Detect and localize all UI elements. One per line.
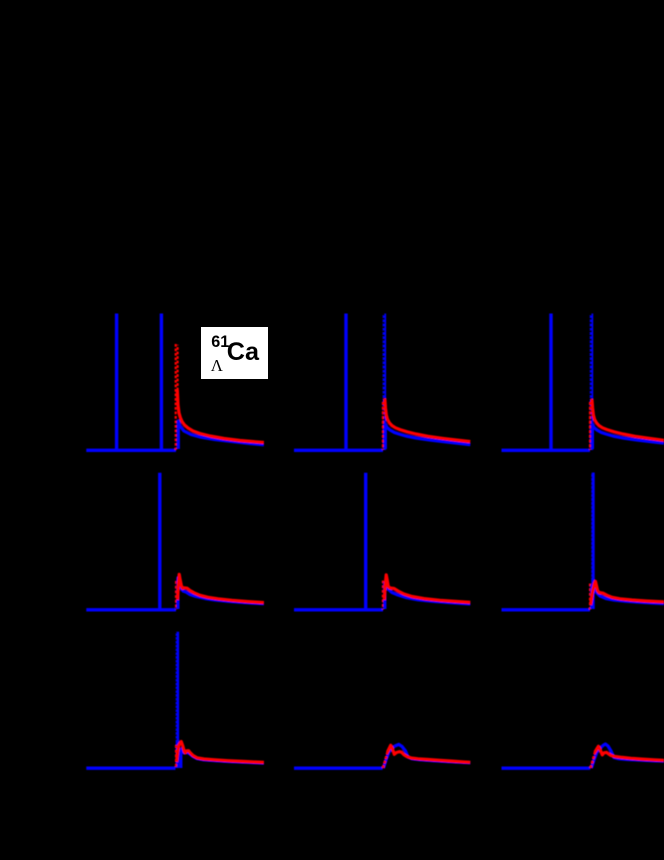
label text 61 superscript — [211, 334, 229, 350]
red dashed threshold line (3,1) — [175, 745, 177, 769]
zero line blue (2,2) — [294, 608, 383, 611]
red dashed threshold line (2,1) — [175, 581, 177, 610]
red continuum curve (3,2) — [388, 745, 471, 762]
black dashed threshold marker (1,2) — [382, 314, 385, 450]
blue continuum curve (2,1) — [178, 578, 264, 609]
blue continuum curve (3,2) — [384, 744, 471, 768]
blue continuum curve (1,3) — [592, 424, 664, 449]
zero line blue (1,1) — [86, 449, 176, 452]
zero line blue (2,1) — [86, 608, 176, 611]
red continuum curve (3,3) — [595, 746, 664, 760]
red continuum curve (3,1) — [177, 742, 264, 763]
red dashed threshold line B (1,1) — [177, 345, 179, 392]
red dashed threshold line (1,3) — [589, 402, 591, 450]
blue continuum curve (3,1) — [181, 749, 264, 769]
red continuum curve (1,2) — [385, 399, 471, 442]
threshold spike blue (1,3) — [590, 314, 593, 451]
blue continuum curve (2,3) — [592, 586, 664, 609]
bound-state spike (2,3) — [591, 473, 594, 610]
red continuum curve (1,3) — [592, 399, 664, 440]
black dashed marker on spike (3,1) — [175, 632, 177, 742]
bound-state spike 1 (1,1) — [115, 314, 118, 451]
red dashed threshold line (2,2) — [382, 581, 384, 610]
blue continuum curve (3,3) — [592, 744, 664, 768]
bound-state spike (1,3) — [549, 314, 552, 451]
bound-state spike (2,2) — [364, 473, 367, 609]
red continuum curve (1,1) — [177, 390, 264, 443]
zero line blue (2,3) — [502, 608, 591, 611]
red continuum curve (2,1) — [178, 574, 264, 602]
label text Ca — [227, 340, 259, 365]
red continuum curve (2,3) — [591, 581, 664, 605]
zero line blue (3,3) — [502, 767, 591, 770]
black dashed marker on spike (2,3) — [591, 473, 593, 579]
red dashed threshold line (2,3) — [589, 584, 591, 610]
red rising dashed edge (3,3) — [590, 748, 597, 768]
bound-state spike (2,1) — [158, 473, 161, 609]
zero line blue (1,3) — [502, 449, 591, 452]
red dashed threshold line A (1,1) — [175, 344, 177, 450]
red dashed threshold line (1,2) — [382, 402, 384, 450]
bound-state spike (1,2) — [344, 314, 347, 451]
bound-state spike 2 (1,1) — [160, 314, 163, 451]
bound-state spike at threshold (3,1) — [176, 632, 179, 768]
blue continuum curve (1,1) — [178, 421, 264, 449]
blue continuum curve (2,2) — [385, 583, 471, 609]
black dashed threshold marker (1,3) — [589, 314, 592, 450]
red rising dashed edge (3,2) — [383, 747, 390, 768]
label text Lambda subscript — [211, 358, 223, 375]
zero line blue (3,2) — [294, 767, 383, 770]
nucleus label box 61-Lambda-Ca — [201, 327, 268, 379]
zero line blue (1,2) — [294, 449, 383, 452]
blue continuum curve (1,2) — [385, 424, 470, 449]
threshold spike blue (1,2) — [383, 314, 386, 451]
red continuum curve (2,2) — [384, 575, 470, 603]
zero line blue (3,1) — [86, 767, 175, 770]
